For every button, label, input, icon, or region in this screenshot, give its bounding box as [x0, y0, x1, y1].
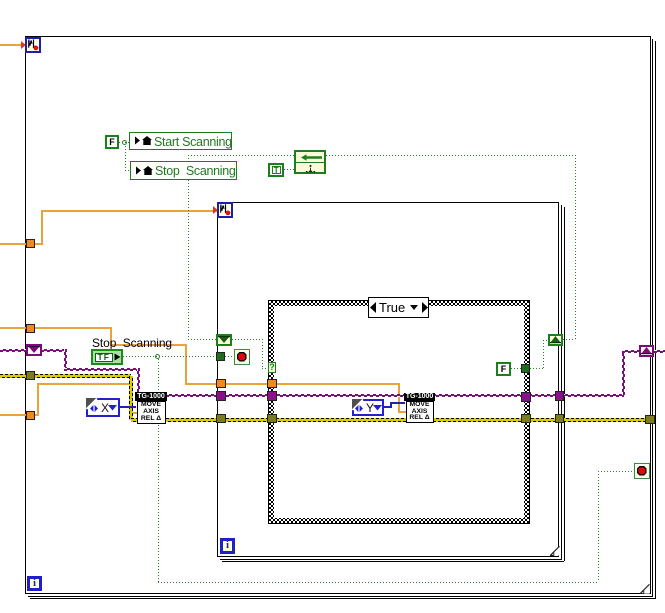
tunnel purple inner-right [555, 391, 564, 401]
TG-1000 node 1 [135, 392, 167, 401]
wire: purple VISA TG1 to right SR [166, 394, 625, 397]
case selector label True [368, 297, 429, 318]
tunnel green case-right boolean [521, 364, 530, 373]
tunnel olive outer-right [645, 415, 655, 424]
feedback node [294, 150, 326, 174]
tunnel olive inner-left [216, 414, 226, 423]
outer loop iteration terminal i [27, 576, 42, 591]
wire: orange into loop y243 up to y210 to chart terminal 2 [0, 243, 41, 245]
wire: error cluster TG1 to right tunnel [166, 418, 646, 422]
wire: boolean dotted Stop box bottom to inner left SR [188, 180, 189, 340]
wire: orange network A tunnel y415 to TG1 [0, 414, 39, 416]
enum constant X [86, 398, 120, 417]
outer while loop shadow line 2 [655, 41, 656, 599]
junction circle at F1 [122, 140, 127, 145]
tunnel green inner-left boolean [216, 352, 225, 361]
tunnel olive inner-right [555, 414, 564, 423]
boolean control TF [91, 349, 123, 365]
outer loop conditional terminal [634, 463, 650, 479]
wire: orange network B tunnel y328 [0, 327, 111, 329]
tunnel purple case-left [267, 391, 277, 401]
tunnel olive case-right [521, 414, 531, 423]
event box Stop Scanning [130, 161, 237, 180]
wire: blue enum X to TG1 [119, 406, 136, 408]
tunnel orange outer y243 [26, 239, 35, 248]
shift register purple left (down arrow) [26, 344, 42, 356]
wire: purple SR to TG1 [41, 349, 67, 352]
waveform chart terminal 2 [217, 202, 233, 218]
inner while loop border [217, 202, 559, 557]
wire: boolean dotted TF down along bottom to outer conditional [158, 359, 159, 583]
junction circle at TF wire [155, 354, 160, 359]
wire: boolean dotted F1 to Start/Stop Scanning [119, 142, 129, 143]
TG-1000 node 2 [404, 393, 435, 401]
wire: purple stub beyond right border [654, 350, 665, 353]
wire: boolean dotted TF to inner conditional terminal [123, 356, 217, 357]
wire: boolean dotted feedback node to inner right SR [326, 155, 575, 156]
outer loop resize corner glyph [640, 584, 650, 594]
tunnel purple case-right [521, 392, 531, 402]
tunnel orange outer y328 [26, 324, 35, 333]
tunnel orange case-left [267, 379, 277, 388]
inner loop resize corner glyph [550, 546, 560, 556]
wire: blue enum Y to TG2 [383, 406, 392, 408]
boolean constant F2 [496, 362, 511, 376]
wire: purple VISA from left edge [0, 349, 27, 352]
case structure border (checkered) [268, 300, 530, 524]
tunnel olive case-left [267, 414, 277, 423]
case selector ? [268, 362, 276, 373]
inner while loop shadow line 2 [564, 207, 565, 561]
waveform chart terminal 1 [25, 37, 41, 53]
wire: boolean dotted F2 to case tunnel to right SR [511, 368, 522, 369]
outer while loop shadow line 1 [652, 39, 653, 596]
tunnel purple inner-left [216, 391, 226, 401]
wire: boolean dotted SR to case selector [232, 339, 262, 340]
wire: orange to chart terminal 1 [0, 44, 25, 46]
enum constant Y [352, 399, 384, 416]
tunnel olive outer y375 [26, 371, 35, 380]
wire: boolean dotted Stop box top to feedback node [188, 155, 189, 162]
shift register green left (down arrow) [216, 334, 232, 346]
boolean constant F1 [105, 135, 119, 149]
inner while loop shadow line 1 [561, 205, 562, 559]
shift register green right (up arrow) [548, 334, 563, 346]
tunnel orange inner-left [216, 379, 226, 388]
wire: error cluster from left edge [0, 374, 131, 378]
inner loop conditional terminal [234, 349, 250, 365]
inner loop iteration terminal i [220, 538, 235, 554]
shift register purple right (up arrow) [639, 345, 654, 357]
boolean constant T [268, 163, 284, 177]
tunnel orange outer y415 [26, 411, 35, 420]
event box Start Scanning [129, 132, 232, 150]
wire: boolean dotted T to feedback node [284, 169, 294, 170]
label Stop Scanning [92, 336, 172, 350]
